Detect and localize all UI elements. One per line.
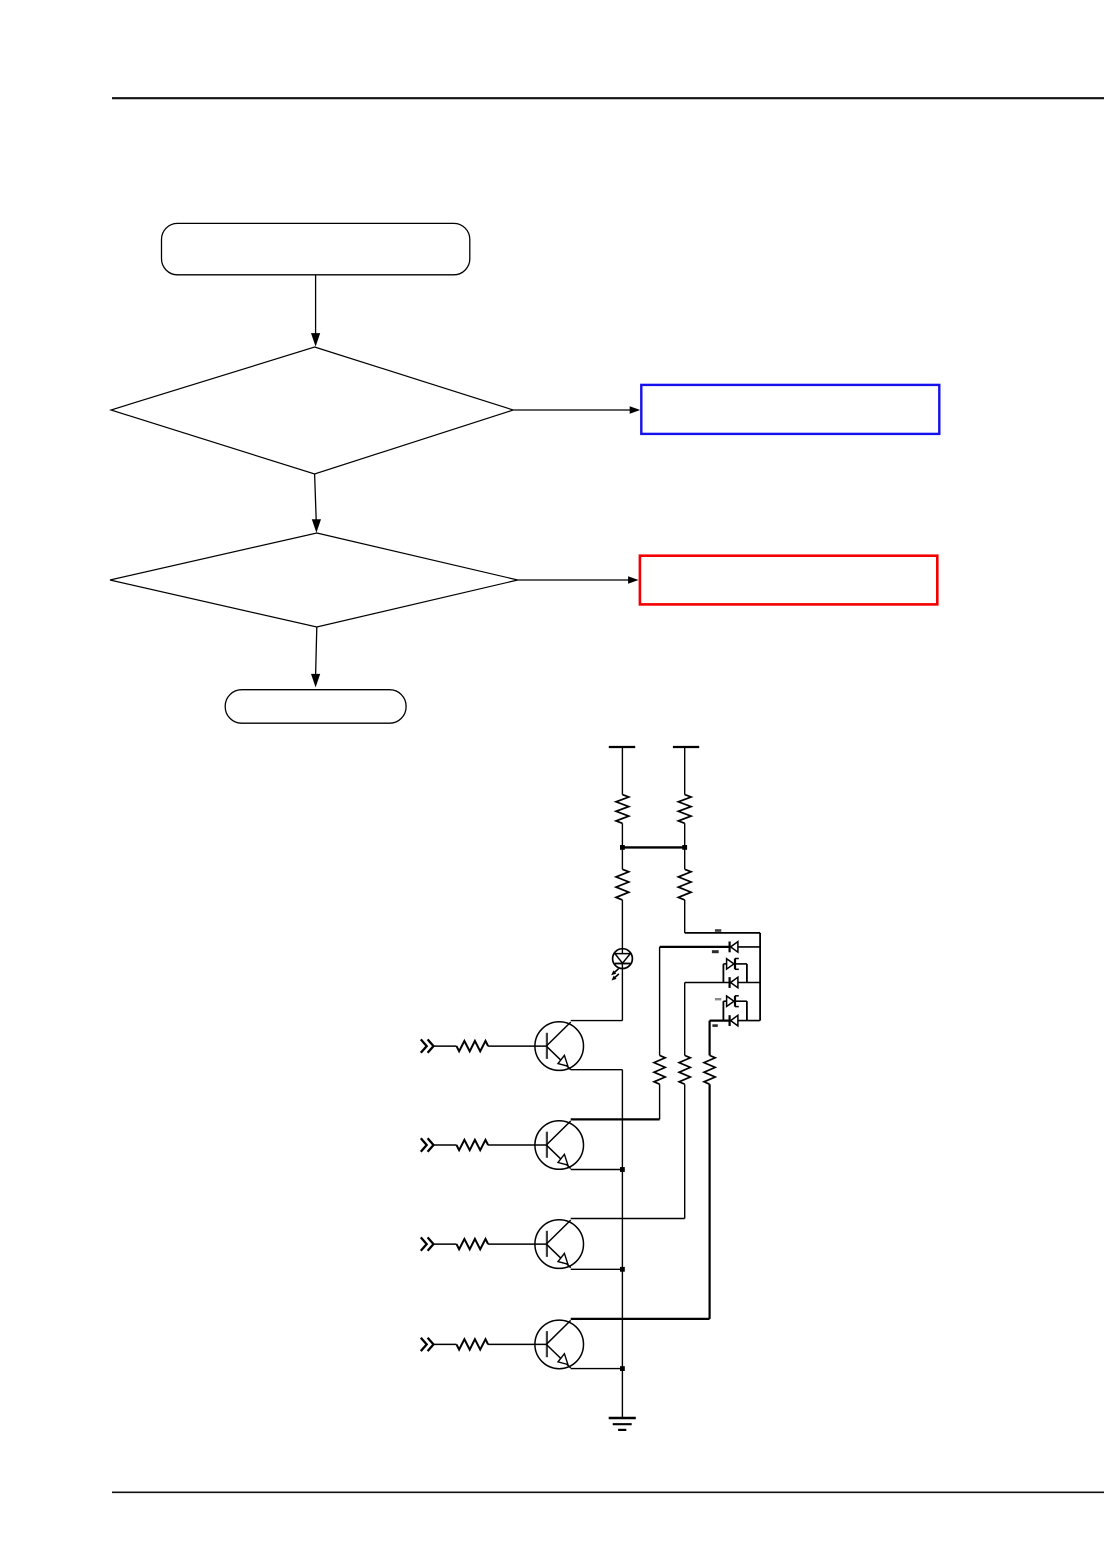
- wire: diode column right vertical: [759, 933, 761, 1021]
- net label 4: [712, 1024, 717, 1027]
- wire: resistor RB4 to Q4 base: [488, 1343, 547, 1345]
- wire: R2 to junction: [684, 823, 686, 847]
- wire: diode row1 to R5: [659, 947, 661, 1056]
- wire: Q2 emitter horizontal: [571, 1169, 623, 1171]
- wire: Q3 collector horizontal: [571, 1218, 685, 1220]
- diode D5 (cathode left): [730, 1015, 738, 1026]
- ground: [609, 1418, 636, 1430]
- wire: R4 down to corner: [684, 900, 686, 933]
- wire: R5 to Q2 collector: [659, 1084, 661, 1119]
- wire: D4 cathode to right bracket: [735, 1000, 747, 1002]
- wire: input 1 to base resistor: [434, 1045, 457, 1047]
- resistor R4: [678, 869, 691, 900]
- transistor Q1 (NPN): [535, 1022, 584, 1071]
- junction: Q3 emitter on rail: [620, 1267, 625, 1272]
- wire: diode row 5 right segment: [738, 1020, 760, 1022]
- resistor R7: [704, 1055, 715, 1084]
- flowchart start terminator: [162, 223, 470, 274]
- LED D6 indicator: [613, 949, 633, 969]
- input connector chevron 2: [421, 1138, 434, 1151]
- wire: R6 to Q3 collector: [684, 1084, 686, 1218]
- resistor R1: [616, 795, 629, 824]
- wire: corner to diode column top: [685, 932, 760, 934]
- net label 2: [712, 950, 719, 953]
- wire: node A down: [621, 847, 623, 869]
- diode D1 (cathode left): [730, 942, 738, 953]
- wire: Q2 collector horizontal: [571, 1118, 660, 1120]
- resistor RB1 (base series): [457, 1041, 489, 1051]
- resistor RB2 (base series): [457, 1140, 489, 1150]
- wire: Q4 emitter horizontal: [571, 1368, 623, 1370]
- flow arrow to red box: [518, 579, 629, 581]
- wire: central emitter/ground rail: [621, 1070, 623, 1418]
- resistor RB4 (base series): [457, 1339, 489, 1349]
- wire: diode row 3 right segment: [738, 982, 760, 984]
- end terminator: [225, 690, 406, 724]
- wire: node B down: [684, 847, 686, 869]
- diode D4 (cathode right, zener bar): [727, 996, 739, 1007]
- resistor R2: [678, 795, 691, 824]
- flow arrow 3: [316, 627, 317, 675]
- junction: Q4 emitter on rail: [620, 1366, 625, 1371]
- flow arrow 1: [315, 275, 317, 334]
- wire: R1 to junction: [621, 823, 623, 847]
- wire: diode row3 to R6: [684, 983, 686, 1056]
- wire: diode row5 to R7: [708, 1021, 710, 1056]
- net label 3: [715, 998, 721, 1000]
- transistor Q3 (NPN): [535, 1220, 584, 1269]
- wire: diode row 5 left segment: [710, 1019, 730, 1021]
- resistor RB3 (base series): [457, 1239, 489, 1249]
- wire: input 4 to base resistor: [434, 1343, 457, 1345]
- top rule: [112, 97, 1104, 99]
- flow arrow 2: [315, 474, 317, 520]
- wire: diode row 1 left segment: [660, 946, 730, 948]
- diode D2 (cathode right, zener bar): [727, 959, 739, 970]
- wire: Q1 collector horizontal: [571, 1020, 623, 1022]
- wire: crossbar joining rails: [622, 846, 684, 848]
- wire: input 3 to base resistor: [434, 1243, 457, 1245]
- wire: D2 cathode to right bracket: [735, 963, 747, 965]
- transistor Q2 (NPN): [535, 1121, 584, 1170]
- flow arrow to blue box: [513, 409, 630, 411]
- wire: rail2 down: [684, 747, 686, 795]
- junction node A: [620, 845, 625, 850]
- wire: input 2 to base resistor: [434, 1144, 457, 1146]
- resistor R5: [654, 1055, 665, 1084]
- junction: Q2 emitter on rail: [620, 1167, 625, 1172]
- wire: R7 to Q4 collector: [708, 1084, 710, 1319]
- wire: D2/D3 right bracket: [746, 964, 748, 983]
- wire: resistor RB1 to Q1 base: [488, 1045, 547, 1047]
- net label 1: [715, 929, 721, 932]
- wire: R3 to LED: [621, 900, 623, 953]
- wire: D2/D3 left bracket: [722, 964, 724, 983]
- input connector chevron 3: [421, 1237, 434, 1250]
- junction node B: [682, 845, 687, 850]
- LED emission arrows: [611, 969, 619, 981]
- wire: rail1 down: [621, 747, 623, 795]
- wire: diode row 3 left segment: [685, 982, 730, 984]
- process box (blue): [641, 385, 939, 434]
- diode D3 (cathode left): [730, 977, 738, 988]
- process box (red): [640, 556, 937, 605]
- wire: diode row 1 right segment: [738, 946, 760, 948]
- power rail 1 (T bar): [609, 746, 635, 748]
- decision diamond 2: [110, 533, 518, 627]
- bottom rule: [112, 1491, 1104, 1493]
- wire: D2 anode stub: [723, 963, 726, 965]
- wire: D4 anode stub: [723, 1000, 726, 1002]
- input connector chevron 1: [421, 1039, 434, 1052]
- decision diamond 1: [111, 347, 513, 474]
- wire: LED cathode down to Q1 collector: [621, 964, 623, 1021]
- wire: Q4 collector horizontal: [571, 1318, 710, 1320]
- resistor R3: [616, 869, 629, 900]
- resistor R6: [679, 1055, 690, 1084]
- wire: resistor RB3 to Q3 base: [488, 1243, 547, 1245]
- wire: resistor RB2 to Q2 base: [488, 1144, 547, 1146]
- wire: Q1 emitter horizontal: [571, 1069, 623, 1071]
- wire: D4/D5 right bracket: [746, 1001, 748, 1020]
- input connector chevron 4: [421, 1338, 434, 1351]
- wire: D4/D5 left bracket: [722, 1001, 724, 1020]
- power rail 2 (T bar): [673, 746, 699, 748]
- wire: Q3 emitter horizontal: [571, 1268, 623, 1270]
- transistor Q4 (NPN): [535, 1320, 584, 1369]
